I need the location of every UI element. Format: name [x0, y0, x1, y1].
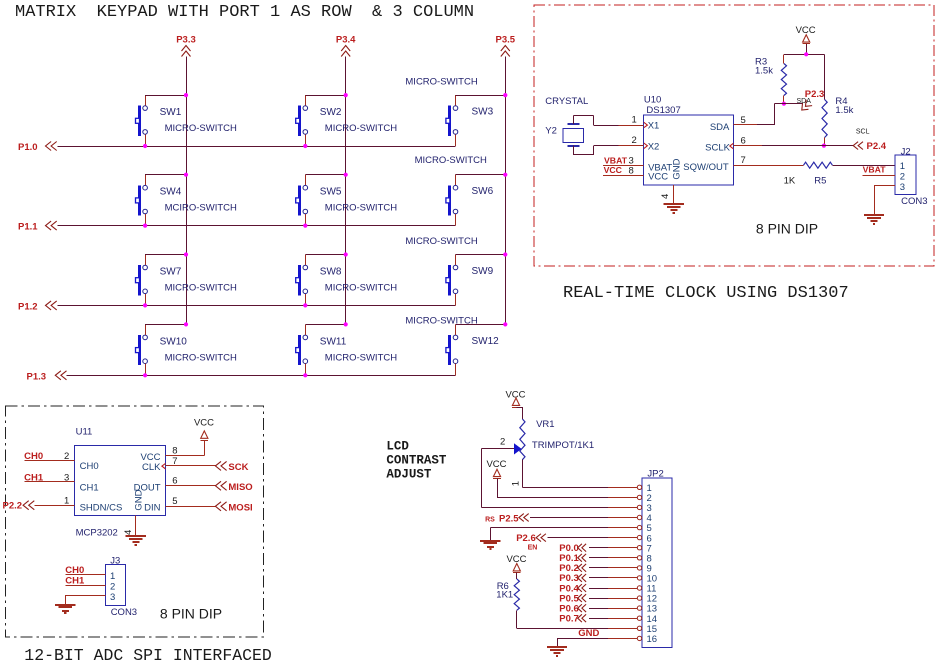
wire pin11 — [589, 588, 608, 590]
junction SW10 bottom — [143, 373, 147, 377]
svg-text:SW4: SW4 — [160, 187, 182, 198]
svg-text:5: 5 — [172, 496, 177, 507]
svg-text:P1.0: P1.0 — [18, 142, 38, 153]
junction SW6 top — [503, 173, 507, 177]
port SCK — [215, 461, 226, 470]
pin 3 VBAT — [603, 165, 643, 167]
JP2 pin 4 circle — [637, 515, 641, 519]
svg-text:2: 2 — [110, 581, 115, 592]
svg-text:RS: RS — [485, 516, 495, 523]
svg-text:MICRO-SWITCH: MICRO-SWITCH — [165, 123, 237, 134]
svg-text:MICRO-SWITCH: MICRO-SWITCH — [405, 77, 477, 88]
svg-text:P3.5: P3.5 — [496, 35, 516, 46]
svg-text:P0.7: P0.7 — [559, 614, 579, 625]
junction SW8 bottom — [303, 303, 307, 307]
op-amp U10 DS1307 — [644, 95, 734, 186]
junction SW7 bottom — [143, 303, 147, 307]
JP2 pin 8 circle — [637, 556, 641, 560]
svg-text:SCLK: SCLK — [705, 142, 730, 153]
wire R6 to pin15 — [608, 628, 637, 630]
JP2 pin 11 circle — [637, 586, 641, 590]
switch SW12 — [405, 315, 499, 375]
wire pin14 — [589, 618, 608, 620]
switch SW9 — [405, 236, 493, 306]
svg-text:DS1307: DS1307 — [646, 105, 680, 116]
svg-text:CH1: CH1 — [24, 472, 44, 483]
junction R3 bottom — [782, 102, 786, 106]
junction SW1 top — [184, 93, 188, 97]
pin 8 VCC — [603, 175, 643, 177]
svg-text:SW2: SW2 — [320, 107, 342, 118]
svg-text:CLK: CLK — [142, 462, 161, 473]
svg-text:U11: U11 — [76, 427, 93, 438]
svg-text:7: 7 — [172, 456, 177, 467]
svg-text:P1.3: P1.3 — [27, 371, 47, 382]
svg-text:MCP3202: MCP3202 — [76, 528, 118, 539]
switch SW5 — [296, 175, 398, 226]
svg-text:P2.5: P2.5 — [499, 514, 519, 525]
wire SW8 to column — [305, 254, 345, 256]
svg-text:MICRO-SWITCH: MICRO-SWITCH — [325, 123, 397, 134]
pin 2 CH0 — [25, 460, 75, 462]
switch SW8 — [296, 255, 398, 306]
switch SW11 — [296, 324, 398, 375]
svg-text:SW6: SW6 — [472, 186, 494, 197]
svg-text:2: 2 — [64, 451, 69, 462]
svg-text:VCC: VCC — [604, 165, 623, 175]
svg-text:J2: J2 — [901, 146, 911, 157]
svg-text:MICRO-SWITCH: MICRO-SWITCH — [165, 282, 237, 293]
wire top rail — [784, 54, 825, 56]
svg-text:MICRO-SWITCH: MICRO-SWITCH — [325, 203, 397, 214]
JP2 pin 16 circle — [637, 636, 641, 640]
switch SW10 — [136, 324, 238, 375]
svg-text:SCK: SCK — [228, 462, 248, 473]
wire pin13 — [589, 608, 608, 610]
svg-text:MISO: MISO — [228, 482, 252, 493]
svg-text:8 PIN DIP: 8 PIN DIP — [160, 606, 222, 622]
port MOSI — [215, 502, 226, 511]
wire SW1 to column — [145, 95, 186, 97]
JP2 pin 15 circle — [637, 626, 641, 630]
op-amp U11 MCP3202 — [75, 427, 166, 539]
svg-text:8 PIN DIP: 8 PIN DIP — [756, 221, 818, 237]
JP2 pin 10 circle — [637, 576, 641, 580]
wire SW6 to column — [456, 174, 506, 176]
resistor R4 — [822, 54, 854, 145]
svg-text:CH0: CH0 — [65, 565, 84, 576]
svg-text:1.5k: 1.5k — [835, 105, 853, 116]
pin 7 SQW/OUT wire — [734, 165, 804, 167]
JP2 pin 3 circle — [637, 505, 641, 509]
svg-text:ADJUST: ADJUST — [386, 468, 432, 482]
wire Y2 to X1 — [573, 115, 575, 124]
wire row P1.2 — [58, 305, 456, 307]
svg-text:CH0: CH0 — [24, 451, 43, 462]
svg-text:VCC: VCC — [796, 25, 816, 36]
svg-text:GND: GND — [672, 158, 683, 179]
svg-text:P3.4: P3.4 — [336, 35, 356, 46]
svg-text:3: 3 — [110, 592, 115, 603]
svg-text:P3.3: P3.3 — [176, 35, 196, 46]
wire pin4 — [530, 517, 608, 519]
ground U11 — [126, 535, 146, 537]
wire SW2 to column — [305, 95, 345, 97]
svg-text:REAL-TIME CLOCK USING DS1307: REAL-TIME CLOCK USING DS1307 — [563, 284, 849, 303]
svg-text:1: 1 — [511, 481, 522, 486]
svg-text:VCC: VCC — [648, 172, 668, 183]
wire SW3 to column — [456, 95, 506, 97]
svg-text:MICRO-SWITCH: MICRO-SWITCH — [325, 352, 397, 363]
svg-text:1K1: 1K1 — [496, 590, 513, 601]
JP2 pin 2 circle — [637, 495, 641, 499]
connector J3 — [106, 556, 138, 619]
pin 5 SDA wire — [734, 124, 757, 126]
wire pin6 — [547, 537, 608, 539]
svg-text:P2.3: P2.3 — [805, 89, 825, 100]
svg-text:MICRO-SWITCH: MICRO-SWITCH — [325, 282, 397, 293]
JP2 pin 13 circle — [637, 606, 641, 610]
svg-text:SCL: SCL — [856, 128, 870, 135]
junction SW4 bottom — [143, 224, 147, 228]
svg-text:4: 4 — [660, 194, 671, 199]
switch SW2 — [296, 95, 398, 146]
wire J3 pin3 — [65, 595, 105, 597]
svg-text:Y2: Y2 — [545, 126, 557, 137]
wire pin8 — [589, 557, 608, 559]
wire VR1 bottom to pin1 — [522, 460, 524, 488]
JP2 pin 14 circle — [637, 616, 641, 620]
svg-text:CRYSTAL: CRYSTAL — [545, 96, 588, 107]
pin 4 GND stem — [673, 185, 675, 204]
junction SW5 bottom — [303, 224, 307, 228]
pin 6 DOUT wire — [166, 485, 216, 487]
svg-text:X2: X2 — [648, 141, 660, 152]
svg-text:SW3: SW3 — [472, 107, 494, 118]
resistor R6 — [496, 573, 519, 611]
JP2 pin 12 circle — [637, 596, 641, 600]
svg-text:P1.2: P1.2 — [18, 301, 38, 312]
wire pin5 to gnd — [608, 527, 637, 529]
svg-text:SW10: SW10 — [160, 336, 188, 347]
junction SW11 bottom — [303, 373, 307, 377]
svg-text:6: 6 — [172, 476, 177, 487]
wire R3 to pin5 — [775, 103, 784, 105]
svg-text:MCIRO-SWITCH: MCIRO-SWITCH — [165, 203, 237, 214]
svg-text:1: 1 — [110, 571, 115, 582]
switch SW4 — [136, 175, 238, 226]
wire SW11 to column — [305, 324, 345, 326]
wire SW5 to column — [305, 174, 345, 176]
svg-text:4: 4 — [123, 530, 134, 535]
wire SW12 to column — [456, 324, 506, 326]
junction SW4 top — [184, 173, 188, 177]
svg-text:P1.1: P1.1 — [18, 222, 38, 233]
svg-text:1.5k: 1.5k — [755, 66, 773, 77]
wire SW7 to column — [145, 254, 186, 256]
junction SW2 top — [344, 93, 348, 97]
trimpot VR1 — [500, 419, 594, 486]
svg-text:8: 8 — [629, 166, 634, 177]
svg-text:VR1: VR1 — [536, 419, 554, 430]
wire J2 pin2 — [863, 175, 896, 177]
svg-text:1: 1 — [632, 115, 637, 126]
pin 8 VCC wire — [166, 455, 205, 457]
connector J2 — [895, 146, 927, 207]
wire R5 to J2 — [832, 165, 895, 167]
svg-text:2: 2 — [632, 135, 637, 146]
switch SW6 — [415, 155, 494, 226]
ground J3 — [55, 604, 75, 606]
wire Y2 to X2 — [573, 146, 575, 155]
wire column P3.3 — [186, 57, 188, 325]
wire row P1.1 — [58, 225, 456, 227]
svg-text:1: 1 — [64, 495, 69, 506]
junction SW12 top — [503, 322, 507, 326]
svg-text:8: 8 — [172, 445, 177, 456]
wire pin12 — [589, 598, 608, 600]
wire pin9 — [589, 567, 608, 569]
svg-text:GND: GND — [133, 489, 144, 510]
wire J3 CH1 — [65, 585, 105, 587]
pin 5 DIN wire — [166, 506, 216, 508]
junction SW5 top — [344, 173, 348, 177]
svg-text:MATRIX KEYPAD WITH PORT 1 AS: MATRIX KEYPAD WITH PORT 1 AS ROW & 3 COL… — [15, 3, 474, 22]
svg-text:CH1: CH1 — [80, 483, 99, 494]
junction R4 bottom — [822, 144, 826, 148]
junction SW11 top — [344, 322, 348, 326]
svg-text:MICRO-SWITCH: MICRO-SWITCH — [405, 236, 477, 247]
svg-text:16: 16 — [647, 634, 658, 645]
svg-text:5: 5 — [741, 115, 746, 126]
svg-text:SDA: SDA — [710, 122, 730, 133]
svg-text:SW9: SW9 — [472, 266, 494, 277]
switch SW3 — [405, 77, 493, 147]
wire column P3.5 — [505, 57, 507, 325]
svg-text:MOSI: MOSI — [228, 502, 252, 513]
wire pin16 to gnd — [608, 638, 637, 640]
pin 4 gnd stem adc — [135, 515, 137, 535]
svg-text:VCC: VCC — [194, 417, 214, 428]
svg-text:6: 6 — [741, 136, 746, 147]
svg-text:R5: R5 — [814, 175, 826, 186]
svg-text:7: 7 — [741, 155, 746, 166]
svg-text:1K: 1K — [784, 175, 796, 186]
svg-text:X1: X1 — [648, 121, 660, 132]
svg-text:SQW/OUT: SQW/OUT — [683, 162, 729, 173]
wire pin10 — [589, 577, 608, 579]
wire row P1.0 — [58, 146, 456, 148]
junction SW1 bottom — [143, 144, 147, 148]
wire vcc to VR1 — [517, 407, 523, 409]
RTC dashed border — [534, 5, 934, 266]
junction SW2 bottom — [303, 144, 307, 148]
svg-text:MICRO-SWITCH: MICRO-SWITCH — [415, 155, 487, 166]
svg-text:CONTRAST: CONTRAST — [386, 454, 447, 468]
svg-text:SW8: SW8 — [320, 266, 342, 277]
pin 1 SHDN — [35, 505, 75, 507]
svg-text:VCC: VCC — [486, 459, 506, 470]
svg-text:MICRO-SWITCH: MICRO-SWITCH — [165, 352, 237, 363]
crystal Y2 — [545, 123, 583, 147]
svg-text:CH1: CH1 — [65, 575, 85, 586]
svg-text:3: 3 — [900, 182, 905, 193]
svg-text:LCD: LCD — [386, 440, 409, 454]
svg-text:CON3: CON3 — [111, 607, 137, 618]
wire column P3.4 — [345, 57, 347, 325]
svg-text:12-BIT ADC SPI INTERFACED: 12-BIT ADC SPI INTERFACED — [24, 646, 272, 664]
svg-text:SW5: SW5 — [320, 187, 342, 198]
wire junction to port P2.3 — [784, 103, 803, 105]
JP2 pin 6 circle — [637, 535, 641, 539]
resistor R5 — [784, 162, 833, 186]
svg-text:EN: EN — [528, 544, 538, 551]
svg-text:TRIMPOT/1K1: TRIMPOT/1K1 — [532, 440, 594, 451]
junction SW9 top — [503, 252, 507, 256]
ground pin16 — [547, 646, 567, 648]
resistor R3 — [755, 54, 787, 103]
wire SW10 to column — [145, 324, 186, 326]
svg-text:GND: GND — [578, 628, 599, 639]
pin 1 X1 — [619, 125, 644, 127]
svg-text:1: 1 — [900, 161, 905, 172]
ground U10 — [664, 203, 684, 205]
JP2 pin 5 circle — [637, 525, 641, 529]
svg-text:P2.4: P2.4 — [867, 141, 887, 152]
svg-text:SW12: SW12 — [472, 336, 500, 347]
wire vcc to pin2 — [497, 478, 499, 497]
svg-text:SW7: SW7 — [160, 266, 182, 277]
ground pin5 — [480, 540, 500, 542]
svg-text:P2.6: P2.6 — [516, 533, 536, 544]
svg-text:2: 2 — [500, 437, 505, 448]
pin 2 X2 — [619, 145, 644, 147]
wire SW9 to column — [456, 254, 506, 256]
svg-text:CON3: CON3 — [901, 196, 927, 207]
port P2.4 — [853, 142, 863, 150]
junction SW8 top — [344, 252, 348, 256]
svg-text:VBAT: VBAT — [863, 165, 887, 175]
wire VR1 wiper — [481, 448, 514, 450]
svg-text:3: 3 — [64, 472, 69, 483]
port MISO — [215, 481, 226, 490]
junction SW3 top — [503, 93, 507, 97]
wire row P1.3 — [67, 375, 456, 377]
switch SW1 — [136, 95, 238, 146]
ground J2 — [864, 214, 884, 216]
switch SW7 — [136, 255, 238, 306]
svg-text:U10: U10 — [644, 95, 661, 106]
svg-text:SHDN/CS: SHDN/CS — [80, 503, 123, 514]
svg-text:P2.2: P2.2 — [3, 501, 23, 512]
wire vcc to rail — [806, 44, 808, 54]
JP2 pin 7 circle — [637, 546, 641, 550]
wire pin7 — [589, 547, 608, 549]
svg-text:DIN: DIN — [144, 503, 161, 514]
JP2 pin 1 circle — [637, 485, 641, 489]
ADC dash-dot border — [6, 406, 264, 637]
wire SW4 to column — [145, 174, 186, 176]
wire J3 CH0 — [65, 574, 105, 576]
pin 7 CLK wire — [166, 465, 216, 467]
svg-text:SW1: SW1 — [160, 107, 182, 118]
svg-text:SW11: SW11 — [320, 336, 347, 347]
pin 3 CH1 — [25, 481, 75, 483]
wire J2 pin3 — [874, 185, 895, 187]
connector JP2 — [642, 469, 672, 648]
junction SW10 top — [184, 322, 188, 326]
junction vcc rail — [804, 52, 808, 56]
junction SW7 top — [184, 252, 188, 256]
JP2 pin 9 circle — [637, 566, 641, 570]
pin 6 SCLK wire — [734, 145, 762, 147]
svg-text:CH0: CH0 — [80, 461, 99, 472]
